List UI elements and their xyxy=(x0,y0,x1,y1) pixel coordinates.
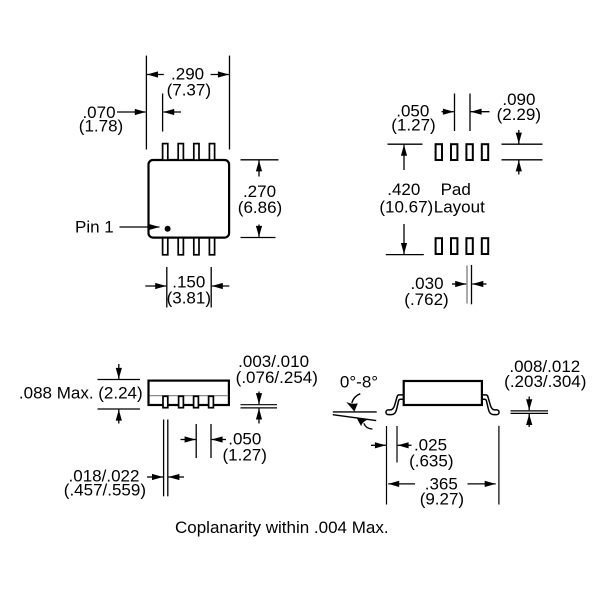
bottom lead 6 xyxy=(178,238,183,255)
package body side view xyxy=(149,381,229,405)
dimension .025 tick left / .365 left extension xyxy=(386,426,388,505)
dimension .030 arrow left xyxy=(452,283,466,285)
svg-text:(.762): (.762) xyxy=(404,290,448,309)
side lead 4 xyxy=(209,396,214,407)
package body U1 top view xyxy=(149,160,230,238)
dimension .070 tick xyxy=(162,94,164,132)
svg-text:(1.27): (1.27) xyxy=(391,115,435,134)
pad row bottom, pad 5 xyxy=(436,238,442,254)
dimension .050 side arrow left xyxy=(181,439,196,441)
side lead 2 xyxy=(179,396,184,407)
dimension .290 extension line left xyxy=(145,56,147,150)
angle slanted line xyxy=(333,415,376,421)
angle lower leader arc xyxy=(364,423,373,429)
body seam line xyxy=(150,395,229,397)
dimension .008/.012 line bottom xyxy=(511,412,549,414)
dimension .270 arrow up xyxy=(258,160,260,176)
dimension .018/.022 line right xyxy=(167,420,169,497)
dimension .050 pad pitch tick left xyxy=(454,94,456,132)
dimension .088 extension bottom xyxy=(98,408,141,410)
svg-text:Layout: Layout xyxy=(434,197,485,216)
dimension .090 extension bottom xyxy=(502,159,543,161)
top lead 3 xyxy=(194,144,199,161)
dimension .150 arrow right xyxy=(212,285,230,287)
dimension .088 arrow down xyxy=(118,364,120,379)
angle upper leader arc xyxy=(352,394,361,403)
dimension .365 arrow right xyxy=(468,483,496,485)
dimension .030 arrow right xyxy=(472,283,486,285)
top lead 2 xyxy=(178,144,183,161)
dimension .150 tick left xyxy=(166,267,168,308)
dimension .018/.022 arrow right xyxy=(168,476,184,478)
svg-text:(3.81): (3.81) xyxy=(167,288,211,307)
dimension .150 arrow left xyxy=(145,285,166,287)
dimension .003/.010 arrow up xyxy=(258,409,260,424)
dimension .003/.010 line top xyxy=(241,404,278,406)
svg-text:(.635): (.635) xyxy=(409,452,453,471)
dimension .420 extension top xyxy=(388,143,423,145)
svg-text:(7.37): (7.37) xyxy=(167,80,211,99)
bottom lead 5 xyxy=(163,238,168,255)
dimension .018/.022 arrow left xyxy=(147,476,163,478)
svg-text:Pin 1: Pin 1 xyxy=(75,217,114,236)
package body end view xyxy=(404,381,482,405)
dimension .088 arrow up xyxy=(118,410,120,424)
dimension .008/.012 arrow down xyxy=(528,397,530,411)
svg-text:Pad: Pad xyxy=(441,180,471,199)
svg-text:(.076/.254): (.076/.254) xyxy=(236,368,318,387)
dimension .050 side arrow right xyxy=(212,439,226,441)
dimension .003/.010 line bottom xyxy=(241,407,278,409)
dimension .290 arrow right xyxy=(211,74,229,76)
svg-text:(10.67): (10.67) xyxy=(379,197,433,216)
side lead 3 xyxy=(194,396,199,407)
pin 1 index dot xyxy=(165,226,171,232)
dimension .270 arrow down xyxy=(258,225,260,237)
dimension .018/.022 line left xyxy=(163,420,165,497)
dimension .030 tick right xyxy=(471,265,473,304)
svg-text:.420: .420 xyxy=(387,180,420,199)
pad 3 xyxy=(466,144,472,160)
dimension .290 arrow left xyxy=(147,74,164,76)
bottom lead 7 xyxy=(194,238,199,255)
angle lower arrowhead xyxy=(356,417,367,426)
dimension .025 arrow right xyxy=(398,444,412,446)
svg-text:.088 Max. (2.24): .088 Max. (2.24) xyxy=(19,384,143,403)
dimension .025 arrow left xyxy=(371,444,386,446)
dimension .003/.010 arrow down xyxy=(258,392,260,405)
pad 2 xyxy=(451,144,457,160)
dimension .050 pad pitch tick right xyxy=(469,94,471,132)
dimension .090 arrow down xyxy=(518,130,520,144)
dimension .050 arrow right xyxy=(471,111,490,113)
angle upper arrowhead xyxy=(346,402,358,412)
dimension .270 extension bottom xyxy=(241,237,276,239)
dimension .365 arrow left xyxy=(388,483,415,485)
angle seating plane line xyxy=(333,411,377,413)
top lead 4 xyxy=(209,144,214,161)
dimension .050 arrow left xyxy=(442,111,454,113)
svg-text:Coplanarity within .004 Max.: Coplanarity within .004 Max. xyxy=(175,518,389,537)
dimension .008/.012 arrow up xyxy=(528,414,530,427)
dimension .050 side tick right xyxy=(210,424,212,458)
svg-text:(1.78): (1.78) xyxy=(79,116,123,135)
dimension .090 extension top xyxy=(502,143,543,145)
pad 8 xyxy=(482,238,488,254)
svg-text:(1.27): (1.27) xyxy=(222,445,266,464)
dimension .150 tick right xyxy=(210,267,212,308)
pad 7 xyxy=(466,238,472,254)
dimension .030 tick left xyxy=(466,266,468,304)
svg-text:(2.29): (2.29) xyxy=(497,105,541,124)
right gull-wing lead xyxy=(481,395,500,415)
dimension .365 right extension xyxy=(498,426,500,505)
svg-text:(.457/.559): (.457/.559) xyxy=(64,481,146,500)
dimension .070 arrow left xyxy=(117,111,146,113)
pin 1 (top lead 1) xyxy=(163,144,168,161)
svg-text:0°-8°: 0°-8° xyxy=(340,373,378,392)
Pin 1 leader arrow xyxy=(120,226,160,228)
side lead 1 xyxy=(163,396,168,407)
dimension .070 arrow right xyxy=(163,111,181,113)
dimension .088 extension top xyxy=(98,379,141,381)
dimension .090 arrow up xyxy=(518,160,520,174)
dimension .290 extension line right xyxy=(229,56,231,150)
pad 4 xyxy=(482,144,488,160)
dimension .420 arrow up xyxy=(403,145,405,170)
bottom lead 8 xyxy=(209,238,214,255)
dimension .008/.012 line top xyxy=(511,410,549,412)
dimension .050 side tick left xyxy=(195,424,197,458)
dimension .420 arrow down xyxy=(403,224,405,254)
dimension .420 extension bottom xyxy=(386,254,424,256)
svg-text:(.203/.304): (.203/.304) xyxy=(504,372,586,391)
dimension .270 extension top xyxy=(241,159,279,161)
svg-text:(9.27): (9.27) xyxy=(420,490,464,509)
pad row top, pad 1 xyxy=(436,144,442,160)
svg-text:(6.86): (6.86) xyxy=(238,198,282,217)
dimension .025 tick right xyxy=(396,426,398,463)
left gull-wing lead xyxy=(386,395,405,415)
pad 6 xyxy=(451,238,457,254)
